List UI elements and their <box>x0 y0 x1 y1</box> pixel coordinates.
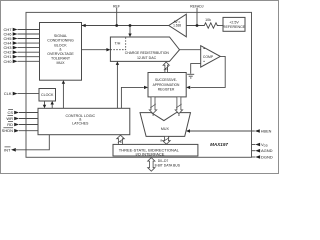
wire HBEN to mux <box>190 130 255 132</box>
svg-text:COMP: COMP <box>203 55 214 59</box>
wire comparator output to SAR <box>191 56 226 87</box>
signal conditioning block U1 <box>40 23 82 81</box>
svg-text:RD: RD <box>7 122 13 127</box>
pin CH4 <box>3 41 39 46</box>
wire REF stub <box>116 8 118 26</box>
pin CH6 <box>3 32 39 37</box>
ground GND1 <box>187 74 194 78</box>
pin INT output <box>4 147 16 152</box>
junction DAC drop <box>129 24 132 27</box>
arrow down into control from clock <box>43 105 46 109</box>
svg-text:MUX: MUX <box>161 127 170 131</box>
bus arrow SAR to mux 4 <box>149 97 156 114</box>
wire control to DAC <box>116 65 118 109</box>
svg-text:I/O INTERFACE: I/O INTERFACE <box>136 152 165 157</box>
arrowheads group <box>43 24 190 133</box>
bus arrow mux to IO 8 <box>160 136 170 144</box>
svg-text:+2.5V: +2.5V <box>229 20 239 24</box>
wire amp to reference <box>186 25 203 27</box>
svg-text:10k: 10k <box>205 18 211 22</box>
wire control to clock <box>51 105 53 109</box>
svg-text:LATCHES: LATCHES <box>72 121 89 125</box>
pin CS <box>7 110 38 115</box>
wire INT <box>16 135 49 150</box>
bus arrow SAR to DAC 12 <box>163 62 169 73</box>
svg-text:HBEN: HBEN <box>261 129 272 133</box>
arrow up into DAC from control <box>116 61 119 65</box>
T/H dashed region <box>110 37 125 50</box>
outer frame <box>1 1 279 174</box>
pin CH3 <box>3 45 39 50</box>
wire REF to DAC <box>129 26 131 35</box>
arrow up into clock from control <box>51 101 54 105</box>
wire DAC to comparator <box>180 49 201 51</box>
svg-text:SHDN: SHDN <box>2 128 13 133</box>
pin CH1 <box>3 54 39 59</box>
svg-text:1.638: 1.638 <box>173 23 181 27</box>
svg-text:AGND: AGND <box>261 148 273 153</box>
arrow up into signal box from control <box>62 80 65 84</box>
wire control to SAR <box>121 87 143 108</box>
arrow into signal box from REF line <box>82 24 86 27</box>
svg-text:CLK: CLK <box>4 91 12 96</box>
bus arrow IO to control 8 <box>117 135 125 144</box>
svg-text:WR: WR <box>6 116 13 121</box>
control logic block <box>38 108 130 134</box>
wire REFADJ stub <box>196 8 198 26</box>
pin REFADJ <box>190 4 204 8</box>
svg-text:SIGNAL: SIGNAL <box>54 34 67 38</box>
pin HBEN <box>255 129 272 133</box>
svg-text:MAX197: MAX197 <box>210 142 228 147</box>
output mux <box>140 113 191 137</box>
svg-text:MUX: MUX <box>57 61 66 65</box>
comparator COMP <box>201 46 221 67</box>
wire clock to control <box>44 101 46 105</box>
DAC U2 charge redistribution <box>110 37 179 61</box>
pin CLK <box>4 91 39 96</box>
svg-text:REF: REF <box>113 4 120 8</box>
pin RD <box>7 122 38 127</box>
bus arrow SAR to mux 8 <box>175 97 182 114</box>
svg-text:REGISTER: REGISTER <box>158 88 175 92</box>
pin AGND <box>252 148 273 153</box>
wire mux out to DAC <box>82 49 107 51</box>
svg-text:CH0: CH0 <box>3 59 12 64</box>
svg-text:8-BIT DATA BUS: 8-BIT DATA BUS <box>155 164 181 168</box>
svg-text:CS: CS <box>7 110 13 115</box>
svg-text:CHARGE REDISTRIBUTION: CHARGE REDISTRIBUTION <box>125 51 170 55</box>
junction REF <box>115 24 118 27</box>
three-state IO interface <box>113 144 198 156</box>
op-amp A1 gain 1.638 <box>169 14 187 37</box>
svg-text:CLOCK: CLOCK <box>41 93 54 97</box>
pin DGND <box>252 155 273 160</box>
svg-text:REFADJ: REFADJ <box>190 4 204 8</box>
arrow into SAR right <box>186 86 190 89</box>
svg-text:INT: INT <box>4 147 11 152</box>
svg-text:REFERENCE: REFERENCE <box>223 25 246 29</box>
reference U3 <box>223 17 246 31</box>
svg-text:SUCCESSIVE-: SUCCESSIVE- <box>155 78 177 82</box>
svg-text:12-BIT DAC: 12-BIT DAC <box>137 56 157 60</box>
pin CH2 <box>3 50 39 55</box>
wire REF bus <box>82 25 169 27</box>
wire comparator input to ground <box>191 64 201 74</box>
bus arrow D0-D7 bidirectional <box>148 158 181 172</box>
resistor R1 10k <box>203 18 219 28</box>
arrow into SAR left <box>144 86 148 89</box>
arrow into DAC input <box>106 48 110 51</box>
pin VDD <box>252 142 268 148</box>
junction REFADJ <box>196 24 199 27</box>
pin SHDN <box>2 128 38 133</box>
diagram border <box>26 12 252 157</box>
svg-text:D0–D7: D0–D7 <box>158 159 169 163</box>
pin WR <box>6 116 38 121</box>
svg-text:DGND: DGND <box>261 155 273 160</box>
pin CH0 <box>3 59 39 64</box>
svg-text:CONDITIONING: CONDITIONING <box>47 39 74 43</box>
arrow down into DAC from REF <box>128 34 131 38</box>
svg-text:APPROXIMATION: APPROXIMATION <box>153 83 180 87</box>
SAR register <box>148 73 186 97</box>
wire control to signal mux <box>62 84 64 109</box>
clock block <box>39 89 56 102</box>
arrow into mux HBEN <box>186 129 190 132</box>
svg-text:12: 12 <box>165 67 169 71</box>
pin CH7 <box>3 27 39 32</box>
pin REF <box>113 4 120 8</box>
svg-text:T/H: T/H <box>115 41 121 45</box>
svg-text:VDD: VDD <box>261 142 268 148</box>
pin CH5 <box>3 36 39 41</box>
